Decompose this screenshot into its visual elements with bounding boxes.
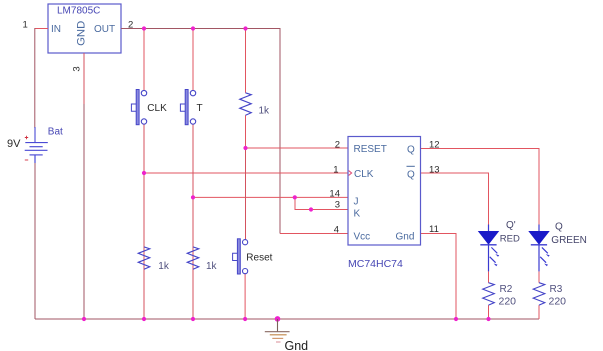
ground symbol [265,319,290,342]
wire 1k pullup bottom lead to reset node [245,115,247,148]
svg-text:1: 1 [23,20,28,31]
wire regulator GND column [83,53,85,319]
svg-text:J: J [354,197,359,208]
resistor R4 1k pullup [240,93,270,117]
svg-text:Gnd: Gnd [396,231,415,242]
wire RESET pin 2 net [246,147,349,149]
svg-text:K: K [354,209,361,220]
resistor R3 220 [533,283,566,308]
pushbutton Reset [233,239,273,274]
svg-text:Q: Q [407,169,415,180]
svg-text:Gnd: Gnd [285,339,309,351]
svg-text:Q: Q [555,222,563,233]
svg-text:RED: RED [500,234,520,245]
wire J-K link [295,197,348,209]
junction 1k top rail [243,26,247,30]
svg-text:IN: IN [51,24,61,35]
wire Qbar pin 13 net [421,173,489,225]
svg-text:1k: 1k [206,261,218,272]
junction rail at R2 column [486,317,490,321]
svg-text:220: 220 [499,296,517,308]
junction J-K link top [293,195,297,199]
flip-flop U1 MC74HC74 body [348,137,421,246]
svg-text:CLK: CLK [354,169,374,180]
junction rail at Reset column [243,317,247,321]
junction T top rail [191,26,195,30]
wire R2 bottom lead [488,305,490,319]
svg-text:1k: 1k [158,261,170,272]
wire top +5V rail [121,28,281,30]
wire Vcc pin 4 [280,233,348,235]
svg-text:Bat: Bat [48,127,63,138]
svg-text:11: 11 [429,224,439,235]
battery V1 9V [25,127,48,163]
svg-text:GREEN: GREEN [551,235,587,246]
svg-text:1: 1 [333,164,338,175]
svg-text:3: 3 [335,199,340,210]
wire green LED to R3 [538,271,540,282]
wire T column bottom [192,124,194,319]
junction rail at ground symbol [275,316,281,322]
junction rail at CLK column [142,317,146,321]
svg-text:T: T [197,103,203,114]
wire reset node down to Reset button [245,148,247,240]
svg-text:Q': Q' [506,220,516,231]
svg-text:R2: R2 [500,284,513,295]
svg-text:RESET: RESET [354,144,387,155]
svg-text:LM7805C: LM7805C [57,6,100,17]
wire ground bottom rail [35,318,539,320]
wire CLK column top [143,29,145,91]
svg-text:CLK: CLK [147,103,167,114]
svg-text:Q: Q [407,145,415,156]
wire pin1 regulator input [35,28,48,30]
svg-text:Vcc: Vcc [354,231,371,242]
junction rail at GND column [82,317,86,321]
junction CLK node [142,171,146,175]
svg-text:GND: GND [76,21,88,46]
voltage regulator U2 LM7805C body [48,4,121,53]
svg-text:14: 14 [329,188,340,199]
LED D2 green [529,225,549,272]
svg-text:3: 3 [72,66,83,71]
wire red LED to R2 [488,271,490,282]
svg-text:MC74HC74: MC74HC74 [348,258,403,270]
svg-text:9V: 9V [7,138,21,150]
junction J node at T column [191,195,195,199]
svg-text:12: 12 [429,140,440,151]
wire battery column upper [34,28,36,128]
svg-text:R3: R3 [550,284,563,295]
pushbutton CLK [131,90,167,125]
svg-text:13: 13 [429,164,440,175]
junction reset node [243,146,247,150]
pushbutton T [180,90,202,125]
wire Q pin 12 net [421,149,540,226]
resistor R6 1k T pulldown [187,247,217,272]
junction K wire [309,207,313,211]
wire Gnd pin 11 net [421,234,457,320]
svg-text:220: 220 [549,296,567,308]
svg-text:4: 4 [334,225,339,236]
wire Vcc drop column [279,29,281,234]
junction rail at T column [191,317,195,321]
svg-text:2: 2 [335,140,340,151]
wire CLK pin 1 net [144,172,348,174]
svg-text:Reset: Reset [246,252,272,263]
junction CLK top rail [142,26,146,30]
resistor R5 1k CLK pulldown [138,247,170,272]
wire 1k pullup top lead [245,29,247,93]
wire Reset button bottom [244,274,246,319]
wire R3 bottom lead [538,305,540,319]
LED D1 red [479,225,499,272]
wire battery column bottom [34,163,36,319]
wire CLK column bottom [143,124,145,319]
svg-text:OUT: OUT [94,24,115,35]
svg-text:1k: 1k [259,106,271,117]
resistor R2 220 [483,283,516,308]
wire T column top [192,29,194,91]
wire J pin 14 net [193,196,348,198]
junction rail at pin 11 column [454,317,458,321]
